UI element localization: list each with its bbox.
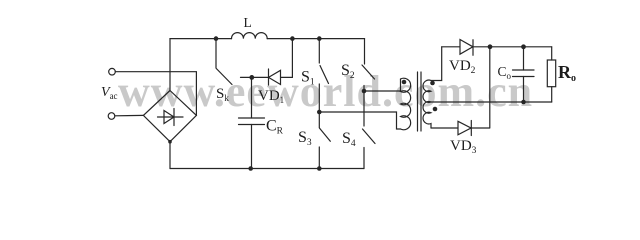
wire top rail right bbox=[267, 38, 364, 40]
resistor Ro body bbox=[547, 60, 555, 87]
switch S2 bottom stub bbox=[363, 86, 365, 127]
wire primary bottom lead bbox=[319, 112, 400, 129]
bridge rectifier diamond bbox=[143, 91, 196, 142]
svg-text:Vac: Vac bbox=[101, 85, 118, 101]
svg-text:L: L bbox=[244, 15, 252, 30]
switch S1 bottom stub / left leg bbox=[318, 84, 320, 128]
wire top rail left bbox=[170, 38, 232, 40]
bridge diode bbox=[158, 109, 184, 126]
transformer secondary winding bottom bbox=[423, 102, 431, 128]
svg-text:S2: S2 bbox=[341, 62, 355, 81]
wire center tap rail bbox=[431, 101, 552, 103]
transformer secondary winding top bbox=[423, 80, 431, 102]
transformer core bbox=[418, 72, 422, 131]
switch Sk stub bbox=[215, 39, 217, 68]
svg-text:CR: CR bbox=[266, 118, 284, 137]
wire secondary bottom lead bbox=[431, 127, 458, 129]
junction dot bottom rail leg1 bbox=[317, 166, 322, 171]
terminal top input bbox=[109, 68, 116, 75]
diode VD2 bbox=[460, 40, 473, 56]
capacitor Co bottom lead bbox=[523, 77, 525, 103]
junction dot rail-VD1 bbox=[290, 36, 295, 41]
wire bottom rail bbox=[170, 168, 364, 170]
junction dot bottom rail CR bbox=[248, 166, 253, 171]
switch S3 blade bbox=[319, 128, 330, 141]
inductor L bbox=[232, 33, 268, 39]
switch S2 top stub bbox=[364, 39, 366, 64]
wire VD3 riser bbox=[471, 47, 490, 128]
wire VD1 riser bbox=[291, 39, 293, 78]
polarity dot primary bbox=[402, 80, 407, 85]
svg-text:S3: S3 bbox=[298, 129, 312, 148]
wire top input to bridge right vertex bbox=[115, 72, 196, 116]
junction dot node X bbox=[249, 75, 254, 80]
switch S1 blade bbox=[320, 66, 329, 84]
junction dot bottom Co bbox=[521, 100, 526, 105]
wire primary top lead bbox=[364, 79, 401, 91]
svg-text:VD3: VD3 bbox=[450, 138, 477, 156]
capacitor CR top lead bbox=[251, 77, 253, 118]
capacitor CR bottom lead bbox=[251, 125, 253, 169]
capacitor Co plates bbox=[513, 70, 535, 77]
junction dot bridge bottom bbox=[168, 140, 172, 144]
resistor Ro bottom riser bbox=[551, 87, 553, 102]
diode VD3 bbox=[458, 121, 471, 136]
polarity dot secondary top bbox=[430, 81, 435, 86]
capacitor CR plates bbox=[239, 118, 265, 125]
polarity dot secondary bottom bbox=[433, 107, 438, 112]
transformer primary winding bbox=[401, 78, 411, 130]
junction dot rail-leg1 bbox=[317, 36, 322, 41]
junction dot output rail VD3 bbox=[488, 44, 493, 49]
switch S4 blade bbox=[363, 129, 376, 144]
junction dot rail-Sk bbox=[214, 36, 219, 41]
switch Sk blade bbox=[216, 69, 232, 85]
svg-text:S4: S4 bbox=[342, 130, 356, 149]
switch S3 bottom stub bbox=[318, 147, 320, 169]
wire bottom input to bridge left vertex bbox=[115, 114, 144, 116]
junction dot left leg midpoint bbox=[317, 110, 322, 115]
switch Sk contact wire bbox=[241, 76, 252, 78]
wire bridge top to rail bbox=[169, 39, 171, 91]
junction dot right leg midpoint bbox=[362, 89, 367, 94]
capacitor Co top lead bbox=[523, 47, 525, 70]
wire secondary top lead bbox=[431, 47, 442, 81]
svg-text:Ro: Ro bbox=[558, 62, 576, 84]
diode VD1 bbox=[252, 69, 292, 85]
wire output top rail bbox=[442, 46, 552, 48]
junction dot output rail Co bbox=[521, 44, 526, 49]
terminal bottom input bbox=[108, 113, 115, 120]
switch S1 top stub bbox=[318, 39, 320, 63]
wire bridge bottom to bottom rail bbox=[169, 142, 171, 169]
resistor Ro top riser bbox=[551, 47, 553, 60]
switch S4 bottom stub bbox=[363, 148, 365, 169]
switch S2 blade bbox=[362, 65, 375, 79]
svg-text:VD2: VD2 bbox=[449, 58, 476, 76]
